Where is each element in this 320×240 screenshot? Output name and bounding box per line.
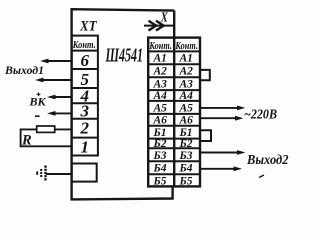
connector X column divider — [173, 38, 175, 187]
svg-text:Б3: Б3 — [153, 150, 167, 162]
svg-text:А1: А1 — [179, 53, 193, 65]
enclosure Ш4541 outline — [72, 9, 175, 199]
svg-text:Б5: Б5 — [153, 175, 167, 187]
jumper А2-А3 — [200, 70, 210, 80]
switch ВК lower arrow (pin 3) — [53, 112, 72, 114]
svg-text:А6: А6 — [179, 114, 194, 126]
svg-text:ВК: ВК — [29, 95, 47, 109]
svg-text:Б3: Б3 — [179, 150, 193, 162]
wire pin5 output arrow — [41, 79, 72, 81]
connector XT outline — [72, 36, 98, 156]
shield contact cell — [72, 164, 97, 182]
wire Б4 to Выход2 — [200, 168, 236, 170]
svg-text:ХТ: ХТ — [79, 19, 97, 35]
svg-text:А4: А4 — [153, 90, 168, 102]
wire ground to shield cell — [46, 173, 72, 175]
jumper Б1-Б2 — [200, 130, 211, 141]
svg-text:Конт.: Конт. — [72, 40, 96, 51]
stray mark — [259, 175, 264, 178]
svg-text:Выход2: Выход2 — [246, 152, 289, 167]
wire А6 to ~220В — [200, 117, 237, 119]
svg-text:А6: А6 — [153, 114, 168, 126]
ground — [44, 166, 46, 182]
svg-text:Б2: Б2 — [153, 138, 167, 150]
svg-text:Х: Х — [160, 9, 169, 24]
svg-text:А3: А3 — [179, 79, 194, 91]
svg-text:А3: А3 — [153, 79, 168, 91]
switch ВК upper arrow (pin 4) — [53, 96, 72, 98]
svg-text:А5: А5 — [153, 102, 168, 114]
wire pin6 output arrow — [46, 60, 72, 62]
svg-text:А2: А2 — [179, 66, 194, 78]
svg-text:Выход1: Выход1 — [4, 65, 44, 77]
svg-text:~220В: ~220В — [244, 108, 277, 123]
svg-text:Б4: Б4 — [179, 163, 193, 175]
wire А5 to ~220В — [200, 107, 239, 109]
svg-text:1: 1 — [81, 138, 90, 157]
svg-text:Конт.: Конт. — [175, 41, 198, 52]
wire pin2 to resistor — [55, 128, 72, 130]
resistor R — [37, 126, 55, 132]
svg-text:Б4: Б4 — [153, 163, 167, 175]
svg-text:Конт.: Конт. — [149, 41, 172, 52]
svg-text:А4: А4 — [179, 90, 194, 102]
ВК mark above — [37, 93, 41, 97]
connector X symbol chevrons — [149, 21, 164, 31]
connector X symbol line — [144, 25, 174, 27]
connector X row lines — [148, 51, 200, 174]
connector X table outline — [148, 38, 200, 187]
svg-text:Ш4541: Ш4541 — [105, 45, 143, 67]
wire resistor to pin1 — [21, 129, 72, 146]
svg-text:2: 2 — [80, 118, 90, 137]
svg-text:6: 6 — [81, 51, 90, 70]
enclosure right edge top segment — [173, 10, 175, 37]
ВК dash mark — [35, 115, 40, 117]
wire Б3 to Выход2 — [200, 152, 239, 154]
svg-text:Б5: Б5 — [179, 175, 193, 187]
svg-text:А1: А1 — [153, 53, 167, 65]
svg-text:А2: А2 — [153, 66, 168, 78]
svg-text:Б2: Б2 — [179, 138, 193, 150]
svg-text:А5: А5 — [179, 102, 194, 114]
XT cell divider lines — [72, 51, 98, 138]
